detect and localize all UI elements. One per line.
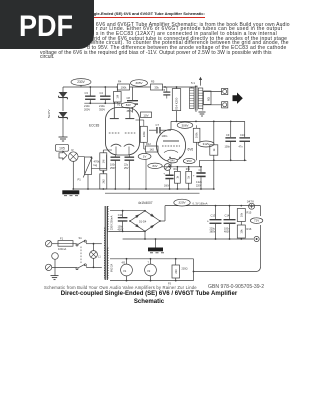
svg-text:210u: 210u: [99, 104, 105, 108]
svg-text:95V: 95V: [187, 159, 192, 163]
svg-text:306V: 306V: [181, 123, 188, 127]
svg-text:385V: 385V: [210, 231, 216, 234]
svg-text:R10: R10: [174, 168, 179, 171]
svg-text:84V: 84V: [153, 164, 158, 168]
svg-text:P1: P1: [78, 178, 82, 182]
svg-text:R: R: [72, 148, 74, 152]
svg-text:100k: 100k: [121, 86, 127, 90]
svg-text:100n: 100n: [162, 134, 168, 138]
svg-text:R16: R16: [247, 227, 252, 231]
svg-text:1M: 1M: [115, 95, 119, 99]
svg-text:10k: 10k: [239, 212, 243, 217]
svg-text:R4: R4: [118, 80, 122, 84]
svg-text:S1: S1: [79, 236, 83, 240]
svg-text:6, 3V 160mA: 6, 3V 160mA: [193, 201, 208, 205]
svg-text:C13: C13: [211, 214, 216, 218]
svg-text:320V: 320V: [178, 201, 186, 205]
svg-text:100mA: 100mA: [58, 247, 66, 251]
svg-text:1M: 1M: [101, 160, 105, 164]
svg-text:C14: C14: [225, 214, 230, 218]
svg-text:R15: R15: [247, 211, 252, 215]
svg-text:C8: C8: [127, 96, 131, 100]
svg-text:S14 K250: S14 K250: [175, 97, 179, 110]
svg-text:ECC83: ECC83: [89, 124, 100, 128]
svg-text:230V 200mA: 230V 200mA: [111, 215, 114, 230]
svg-text:C4: C4: [100, 91, 104, 95]
svg-text:350V: 350V: [99, 107, 105, 111]
svg-text:400V: 400V: [224, 231, 230, 234]
svg-text:200V: 200V: [84, 107, 90, 111]
svg-text:10k: 10k: [239, 229, 243, 234]
svg-text:+: +: [163, 172, 165, 176]
svg-text:347V: 347V: [247, 199, 255, 203]
svg-text:84V: 84V: [126, 103, 131, 107]
svg-text:1k: 1k: [175, 175, 179, 178]
svg-text:1V: 1V: [143, 154, 147, 158]
svg-text:5x47V: 5x47V: [47, 109, 51, 118]
svg-text:1k: 1k: [187, 175, 191, 178]
svg-text:5:1: 5:1: [191, 81, 195, 85]
svg-text:C10: C10: [240, 133, 245, 137]
svg-text:250V: 250V: [110, 167, 116, 170]
svg-text:0.22u: 0.22u: [196, 182, 202, 184]
svg-text:470k: 470k: [94, 160, 100, 164]
svg-text:C11: C11: [118, 213, 123, 217]
svg-text:100n: 100n: [225, 146, 231, 149]
svg-text:F1: F1: [60, 236, 64, 240]
svg-text:33k: 33k: [154, 86, 159, 90]
svg-text:100k: 100k: [195, 132, 199, 138]
svg-text:230V: 230V: [77, 80, 85, 84]
svg-text:72V: 72V: [254, 219, 259, 223]
svg-text:V2: V2: [147, 269, 151, 273]
svg-text:C8: C8: [199, 169, 203, 172]
svg-text:160V: 160V: [164, 186, 170, 188]
svg-text:4/5: 4/5: [122, 262, 126, 265]
svg-text:+: +: [207, 220, 209, 224]
svg-text:+: +: [193, 174, 195, 178]
svg-text:C7: C7: [156, 123, 160, 127]
svg-text:2k2: 2k2: [101, 179, 105, 184]
svg-text:230: 230: [174, 269, 178, 274]
svg-text:4x1N4007: 4x1N4007: [138, 201, 153, 205]
svg-text:230Ω: 230Ω: [182, 268, 188, 271]
svg-text:1k: 1k: [212, 148, 216, 151]
svg-text:R12: R12: [146, 142, 151, 146]
svg-text:10V: 10V: [143, 113, 148, 117]
svg-text:C9: C9: [226, 133, 230, 137]
svg-text:220V: 220V: [196, 185, 202, 187]
svg-text:log: log: [94, 163, 98, 167]
svg-text:84V: 84V: [170, 160, 175, 163]
svg-text:V1: V1: [117, 103, 121, 107]
svg-text:C3: C3: [85, 91, 89, 95]
svg-text:1k5: 1k5: [150, 148, 155, 152]
svg-text:47n: 47n: [239, 146, 244, 149]
svg-text:6V3 2A: 6V3 2A: [111, 263, 114, 272]
svg-text:6V6: 6V6: [188, 148, 194, 152]
svg-text:312V: 312V: [203, 142, 210, 146]
svg-text:305V: 305V: [135, 81, 143, 85]
svg-text:R5: R5: [151, 80, 155, 84]
svg-text:25V: 25V: [124, 167, 129, 170]
svg-text:R11: R11: [186, 168, 191, 171]
svg-text:210n: 210n: [84, 104, 90, 108]
svg-text:L1: L1: [98, 256, 101, 259]
svg-text:D1-D4: D1-D4: [139, 220, 147, 223]
svg-text:V1: V1: [123, 269, 127, 273]
svg-text:1V5: 1V5: [59, 147, 65, 151]
svg-text:220k: 220k: [142, 131, 146, 137]
